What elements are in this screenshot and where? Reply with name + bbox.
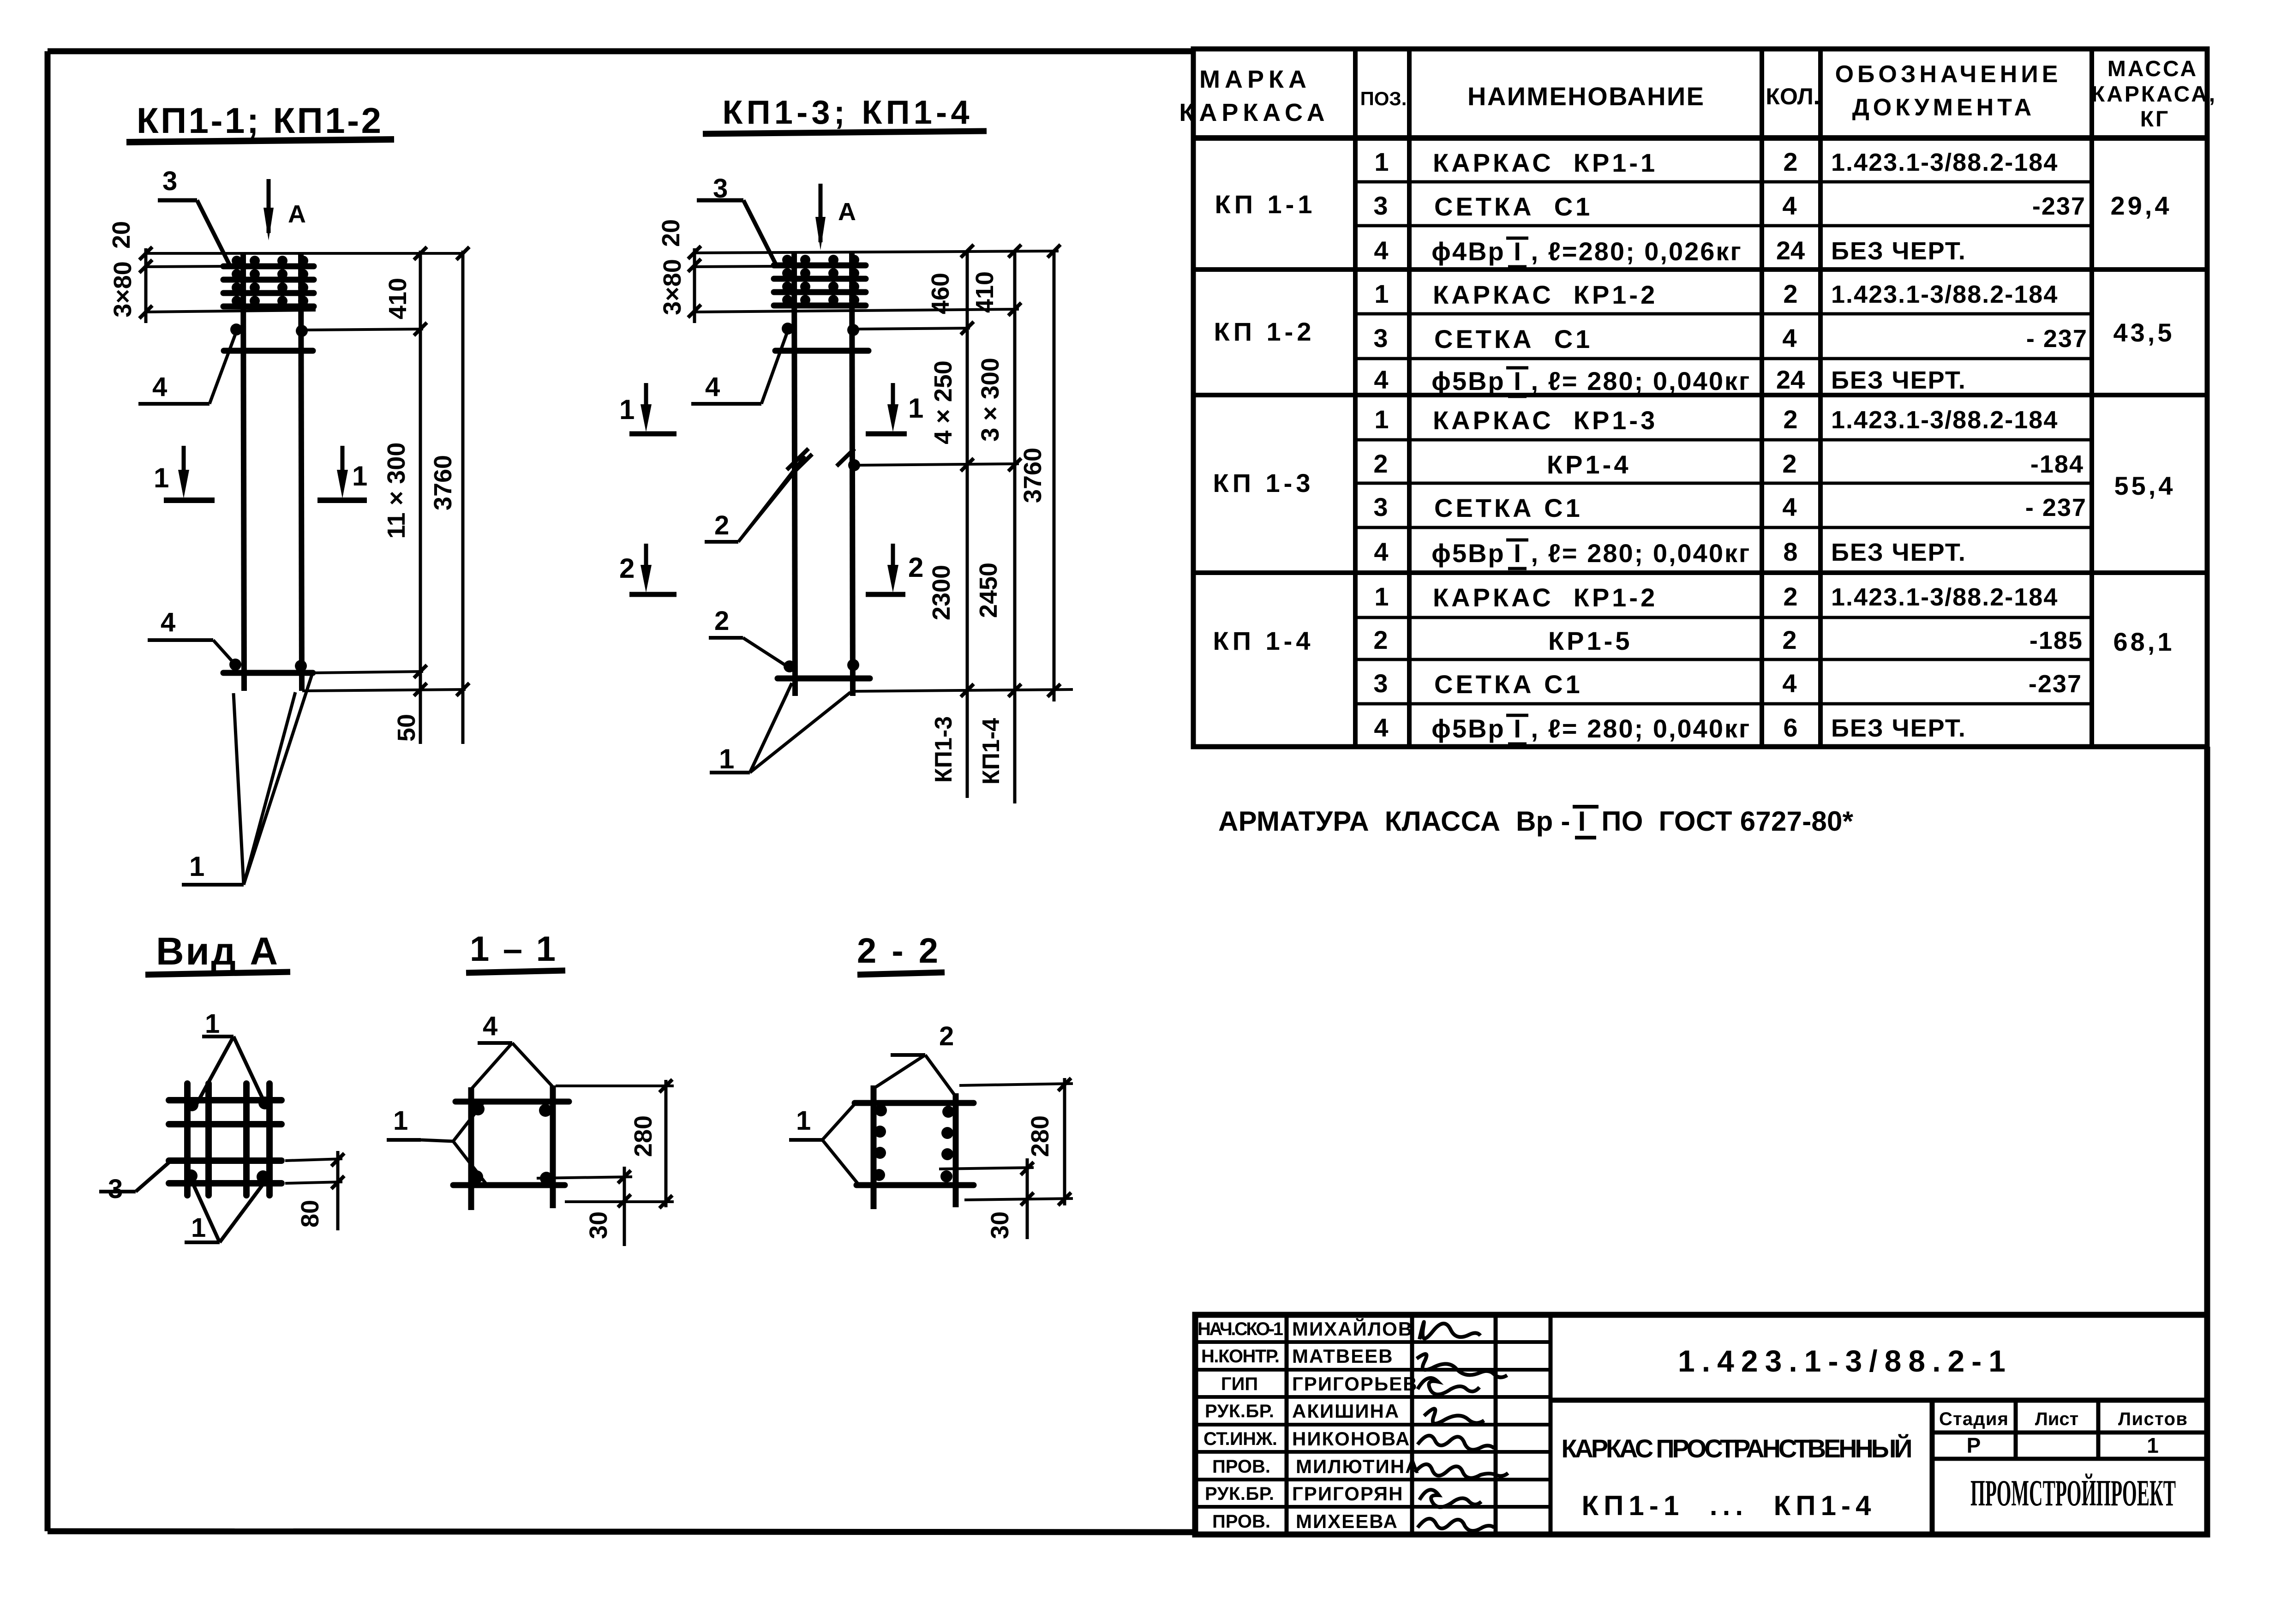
signature squiggle row3	[1418, 1378, 1479, 1395]
stadia list listov dividers	[1932, 1400, 2207, 1459]
section marker 2 right d2	[866, 544, 923, 594]
signature squiggle row2	[1417, 1354, 1507, 1378]
spec table document designation texts	[1831, 149, 2088, 742]
svg-text:КП1-3: КП1-3	[930, 716, 957, 783]
svg-text:2: 2	[619, 553, 635, 584]
svg-text:МАТВЕЕВ: МАТВЕЕВ	[1292, 1345, 1394, 1367]
ticks on 3x80 dim d2	[688, 246, 701, 318]
svg-text:3760: 3760	[429, 455, 457, 510]
extension line from dot to dim 410	[307, 329, 423, 330]
svg-text:КАРКАСА,: КАРКАСА,	[2091, 82, 2217, 107]
signature squiggle row6	[1415, 1464, 1508, 1478]
dim 30 section1	[537, 1167, 632, 1246]
section marker 1 right	[317, 446, 367, 500]
svg-text:3×80: 3×80	[109, 261, 137, 318]
svg-text:460: 460	[927, 273, 954, 314]
svg-text:КАРКАС ПРОСТРАНСТВЕННЫЙ: КАРКАС ПРОСТРАНСТВЕННЫЙ	[1562, 1434, 1915, 1463]
section marker 1 left	[154, 446, 215, 500]
title underline	[703, 131, 987, 134]
svg-text:- 237: - 237	[2025, 494, 2087, 521]
signature squiggle row1	[1419, 1322, 1480, 1340]
signature squiggle row5	[1418, 1436, 1494, 1450]
spec table name column texts	[1433, 148, 1658, 699]
svg-text:КАРКАС КР1-3: КАРКАС КР1-3	[1433, 406, 1658, 435]
splice dot right bar d2	[848, 459, 860, 471]
section2 left stirrup leg	[871, 1085, 877, 1209]
svg-text:1: 1	[154, 462, 169, 493]
spec table mass values	[2111, 191, 2176, 656]
svg-text:2: 2	[1783, 405, 1797, 434]
svg-text:4: 4	[1782, 669, 1796, 698]
svg-text:3: 3	[162, 166, 177, 196]
title block outer frame	[1195, 1315, 2207, 1534]
svg-text:ГРИГОРЯН: ГРИГОРЯН	[1292, 1483, 1403, 1504]
svg-text:2: 2	[908, 552, 923, 583]
svg-text:1: 1	[1374, 582, 1389, 611]
mesh C1 bar row 4	[223, 296, 314, 306]
svg-text:4: 4	[1782, 324, 1796, 353]
svg-text:КП 1-3: КП 1-3	[1213, 468, 1314, 497]
mesh C1 bar row 1	[223, 256, 314, 266]
svg-text:КАРКАСА: КАРКАСА	[1179, 99, 1329, 126]
dim 30 section2	[939, 1158, 1034, 1239]
svg-text:МАССА: МАССА	[2107, 57, 2198, 81]
svg-text:1: 1	[796, 1106, 811, 1136]
svg-text:3: 3	[1373, 191, 1388, 220]
svg-text:11 × 300: 11 × 300	[383, 443, 410, 539]
right longitudinal bar d2	[852, 252, 853, 696]
svg-text:СТ.ИНЖ.: СТ.ИНЖ.	[1203, 1429, 1277, 1449]
signature squiggle row8	[1418, 1519, 1494, 1531]
cage top line	[146, 252, 464, 255]
svg-text:РУК.БР.: РУК.БР.	[1205, 1484, 1274, 1504]
svg-text:6: 6	[1783, 713, 1797, 742]
leader 4 lower	[148, 607, 234, 663]
svg-text:1: 1	[1374, 405, 1389, 434]
svg-text:КР1-4: КР1-4	[1547, 450, 1631, 479]
svg-text:4: 4	[152, 372, 167, 402]
svg-text:3 × 300: 3 × 300	[976, 358, 1004, 442]
svg-text:2: 2	[1782, 449, 1796, 478]
dim column 3x80,20 line d2	[693, 248, 696, 323]
title block names	[1292, 1318, 1420, 1532]
spec table group boundary lines	[1193, 270, 2207, 573]
mesh C1 bar row 3 d2	[774, 282, 866, 292]
spec table header text МАССА КАРКАСА КГ	[2091, 57, 2217, 132]
svg-text:КГ: КГ	[2140, 107, 2170, 132]
svg-text:СЕТКА С1: СЕТКА С1	[1434, 493, 1583, 522]
leader 1 section1	[387, 1101, 486, 1184]
leader 4 section1	[472, 1011, 552, 1088]
svg-text:30: 30	[986, 1211, 1014, 1239]
svg-text:3: 3	[108, 1174, 123, 1204]
view arrow A	[263, 179, 306, 240]
svg-text:3: 3	[1373, 669, 1388, 698]
left longitudinal bar	[243, 253, 244, 691]
svg-text:2: 2	[1783, 279, 1797, 308]
svg-text:1.423.1-3/88.2-184: 1.423.1-3/88.2-184	[1831, 281, 2058, 308]
title block signature area verticals	[1287, 1315, 1551, 1534]
extension line bar-end to dim	[302, 689, 466, 691]
svg-text:ПРОМСТРОЙПРОЕКТ: ПРОМСТРОЙПРОЕКТ	[1970, 1473, 2176, 1514]
title underline	[126, 139, 394, 142]
svg-text:КП 1-4: КП 1-4	[1213, 626, 1314, 655]
extension line tie to dim	[314, 671, 423, 673]
svg-text:МАРКА: МАРКА	[1199, 66, 1311, 93]
svg-text:СЕТКА С1: СЕТКА С1	[1434, 670, 1583, 699]
svg-text:БЕЗ ЧЕРТ.: БЕЗ ЧЕРТ.	[1831, 237, 1966, 265]
grid vertical bar 1	[184, 1084, 191, 1195]
right longitudinal bar	[301, 253, 302, 691]
leader 2 section2	[875, 1021, 954, 1095]
leader 4 upper d2	[691, 331, 788, 404]
svg-text:4: 4	[161, 607, 175, 637]
svg-text:410: 410	[971, 271, 999, 313]
section2 top mesh bar	[855, 1100, 974, 1106]
section2 bottom mesh bar	[856, 1182, 974, 1188]
svg-text:2: 2	[1783, 147, 1797, 176]
svg-text:1.423.1-3/88.2-184: 1.423.1-3/88.2-184	[1831, 406, 2058, 434]
svg-text:20: 20	[657, 219, 685, 247]
svg-text:А: А	[838, 198, 856, 226]
svg-text:68,1: 68,1	[2113, 627, 2175, 656]
svg-text:ПРОВ.: ПРОВ.	[1212, 1456, 1270, 1477]
svg-text:Стадия: Стадия	[1939, 1409, 2008, 1429]
overbar/underbar marks for Vr-I in rebar rows	[1506, 238, 1528, 744]
svg-text:ϕ4Вр I , ℓ=280; 0,026кг: ϕ4Вр I , ℓ=280; 0,026кг	[1431, 237, 1742, 266]
svg-text:КАРКАС КР1-1: КАРКАС КР1-1	[1433, 148, 1658, 177]
ticks on 410 dim line	[414, 247, 427, 696]
grid horizontal bar 2	[169, 1121, 281, 1127]
pos4 rod dots lower	[229, 659, 241, 671]
ticks dim 3760 d2	[1048, 245, 1060, 697]
svg-text:1: 1	[719, 743, 734, 774]
svg-text:ДОКУМЕНТА: ДОКУМЕНТА	[1852, 94, 2035, 121]
spec table header bottom line	[1193, 135, 2207, 141]
svg-text:280: 280	[629, 1115, 657, 1157]
extension line from dot to dim 460 d2	[858, 328, 970, 329]
svg-text:24: 24	[1776, 365, 1805, 394]
svg-text:4: 4	[1374, 537, 1388, 566]
spec table column lines	[1355, 49, 2092, 747]
svg-text:1: 1	[908, 393, 923, 424]
splice break mark left bar d2	[787, 449, 812, 475]
svg-text:МИЛЮТИНА: МИЛЮТИНА	[1296, 1456, 1420, 1477]
spec table rebar rows with phi	[1431, 237, 1751, 743]
svg-text:3760: 3760	[1019, 448, 1047, 503]
leader 2 lower d2	[709, 606, 787, 666]
cage top line d2	[694, 251, 1059, 253]
pos4 rod dots lower d2	[784, 660, 796, 672]
svg-text:ГИП: ГИП	[1221, 1374, 1258, 1394]
spec table outer frame	[1193, 49, 2207, 747]
svg-text:ϕ5Вр I , ℓ= 280; 0,040кг: ϕ5Вр I , ℓ= 280; 0,040кг	[1431, 539, 1751, 568]
svg-text:ГРИГОРЬЕВ: ГРИГОРЬЕВ	[1292, 1373, 1418, 1395]
svg-text:50: 50	[393, 714, 420, 742]
title underline 1-1	[466, 971, 565, 973]
grid vertical bar 4	[266, 1084, 273, 1195]
svg-text:24: 24	[1776, 236, 1805, 265]
leader 1 top viewA	[196, 1009, 262, 1106]
section1 bottom mesh bar	[453, 1182, 565, 1188]
dim line 3760 d2	[1053, 251, 1056, 701]
svg-text:30: 30	[585, 1211, 612, 1239]
section1 right stirrup leg	[550, 1085, 556, 1208]
leader 1 bottom	[182, 675, 312, 885]
svg-text:Лист: Лист	[2035, 1409, 2079, 1429]
svg-text:ПРОВ.: ПРОВ.	[1212, 1511, 1270, 1532]
svg-text:КР1-5: КР1-5	[1548, 626, 1632, 655]
ticks dim 460 line	[961, 245, 974, 697]
title block doc number cell bottom line	[1551, 1398, 2207, 1403]
svg-text:2 - 2: 2 - 2	[857, 931, 945, 971]
section2 right rod dots	[942, 1106, 954, 1118]
mesh row1 extension line d2	[694, 266, 776, 267]
mesh C1 bar row 3	[223, 282, 314, 293]
spec table header text МАРКА КАРКАСА	[1179, 66, 1329, 126]
spec table col1 mark labels	[1213, 190, 1316, 655]
svg-text:3×80: 3×80	[659, 259, 686, 315]
svg-text:КП1-1; КП1-2: КП1-1; КП1-2	[137, 100, 386, 141]
svg-text:ϕ5Вр I , ℓ= 280; 0,040кг: ϕ5Вр I , ℓ= 280; 0,040кг	[1431, 366, 1751, 396]
svg-text:БЕЗ ЧЕРТ.: БЕЗ ЧЕРТ.	[1831, 366, 1966, 394]
svg-text:1: 1	[1374, 279, 1389, 308]
svg-text:БЕЗ ЧЕРТ.: БЕЗ ЧЕРТ.	[1831, 714, 1966, 742]
svg-text:КП1-4: КП1-4	[978, 718, 1005, 785]
svg-text:А: А	[288, 200, 306, 228]
signature squiggle row4	[1424, 1408, 1484, 1423]
svg-text:Вид А: Вид А	[156, 929, 285, 973]
svg-text:МИХЕЕВА: МИХЕЕВА	[1296, 1510, 1398, 1532]
svg-text:КП1-1 ... КП1-4: КП1-1 ... КП1-4	[1582, 1490, 1875, 1521]
svg-text:2: 2	[939, 1021, 954, 1051]
leader 3 viewA	[99, 1159, 173, 1204]
svg-text:АКИШИНА: АКИШИНА	[1292, 1400, 1400, 1422]
section1 left stirrup leg	[468, 1087, 474, 1210]
svg-text:8: 8	[1783, 537, 1797, 566]
svg-text:НАИМЕНОВАНИЕ: НАИМЕНОВАНИЕ	[1467, 82, 1707, 111]
dim line 460/4x250/2300 d2	[966, 251, 969, 798]
spec table kol numbers	[1776, 147, 1805, 742]
svg-text:-185: -185	[2030, 627, 2083, 654]
svg-text:3: 3	[1373, 324, 1388, 353]
grid corner dots	[186, 1098, 198, 1111]
lower transverse tie	[223, 670, 313, 676]
pos4 rod dots upper d2	[782, 323, 794, 335]
section marker 2 left d2	[619, 544, 677, 594]
leader 1 section2	[789, 1102, 858, 1184]
leader 1 bottom d2	[710, 683, 850, 774]
grid horizontal bar 3	[169, 1157, 281, 1164]
dim 80 viewA	[285, 1151, 344, 1230]
svg-text:2: 2	[714, 606, 729, 636]
title block signature rows	[1195, 1342, 1551, 1507]
svg-text:20: 20	[108, 221, 135, 249]
spec table poz numbers	[1373, 147, 1389, 742]
splice level extension line d2	[859, 464, 1019, 465]
dim line 410/3x300/2450 d2	[1013, 251, 1017, 803]
svg-text:КП 1-2: КП 1-2	[1214, 317, 1315, 346]
svg-text:2: 2	[1373, 449, 1388, 478]
ticks dim 410 line d2	[1008, 245, 1021, 697]
title block role labels	[1197, 1319, 1283, 1532]
svg-text:-184: -184	[2030, 450, 2084, 478]
dim line 3760	[461, 251, 465, 744]
leader 2 mid d2	[705, 456, 805, 542]
svg-text:1 – 1: 1 – 1	[470, 929, 562, 969]
section2 left rod dots	[875, 1104, 887, 1116]
svg-text:29,4: 29,4	[2111, 191, 2172, 220]
mesh bottom extension line d2 to dim 410	[694, 309, 1019, 312]
svg-text:НАЧ.СКО-1: НАЧ.СКО-1	[1197, 1319, 1283, 1339]
stadia header labels	[1939, 1409, 2187, 1429]
svg-text:РУК.БР.: РУК.БР.	[1205, 1401, 1274, 1421]
svg-text:МИХАЙЛОВ: МИХАЙЛОВ	[1292, 1318, 1413, 1340]
svg-text:- 237: - 237	[2026, 325, 2088, 353]
section1 corner bar dots	[472, 1103, 485, 1115]
svg-text:2300: 2300	[928, 565, 955, 620]
svg-text:НИКОНОВА: НИКОНОВА	[1292, 1428, 1410, 1450]
dim column 3x80,20 line	[144, 248, 148, 323]
svg-text:280: 280	[1026, 1115, 1054, 1157]
svg-text:1: 1	[191, 1213, 206, 1243]
svg-text:2450: 2450	[975, 563, 1002, 618]
upper transverse tie d2	[775, 348, 868, 354]
svg-text:1: 1	[205, 1009, 220, 1039]
splice break mark right bar d2	[837, 449, 855, 466]
svg-text:4: 4	[1374, 365, 1388, 394]
section marker 1 left d2	[619, 383, 677, 434]
svg-text:4: 4	[705, 372, 720, 402]
ticks on 3760 dim line	[456, 247, 469, 696]
svg-text:4: 4	[1374, 236, 1388, 265]
svg-text:1.423.1-3/88.2-184: 1.423.1-3/88.2-184	[1831, 149, 2058, 176]
grid vertical bar 3	[243, 1084, 250, 1195]
signature squiggle row7	[1419, 1490, 1481, 1507]
svg-text:ПОЗ.: ПОЗ.	[1360, 88, 1407, 109]
extension line bar ends to dims d2	[850, 689, 1073, 691]
leader 1 bottom viewA	[185, 1181, 264, 1243]
svg-text:1: 1	[189, 851, 204, 882]
leader 3 drawing2	[697, 174, 777, 267]
svg-text:КП1-3; КП1-4: КП1-3; КП1-4	[723, 94, 974, 131]
svg-text:80: 80	[296, 1200, 324, 1228]
title block stadia column divider	[1930, 1400, 1935, 1534]
mesh C1 bar row 4 d2	[774, 295, 866, 306]
svg-text:55,4: 55,4	[2114, 471, 2176, 500]
mesh group bottom extension line	[146, 310, 316, 312]
section1 top mesh bar	[455, 1099, 569, 1105]
mesh row1 extension line	[146, 266, 226, 267]
svg-text:КП 1-1: КП 1-1	[1215, 190, 1316, 219]
svg-text:БЕЗ ЧЕРТ.: БЕЗ ЧЕРТ.	[1831, 539, 1966, 566]
svg-text:СЕТКА С1: СЕТКА С1	[1434, 192, 1593, 221]
mesh C1 bar row 2 d2	[774, 268, 866, 279]
svg-text:3: 3	[1373, 492, 1388, 521]
ticks on 3x80 dim	[139, 247, 152, 318]
svg-text:Листов: Листов	[2118, 1409, 2187, 1429]
dim 280 section1	[556, 1079, 674, 1208]
grid horizontal bar 1	[169, 1097, 281, 1103]
svg-text:КАРКАС КР1-2: КАРКАС КР1-2	[1433, 583, 1658, 612]
leader 4 upper	[138, 332, 236, 404]
svg-text:КАРКАС КР1-2: КАРКАС КР1-2	[1433, 280, 1658, 309]
mesh C1 bar row 1 d2	[774, 255, 866, 265]
svg-text:4: 4	[483, 1011, 497, 1041]
left longitudinal bar d2	[794, 252, 795, 696]
section2 right stirrup leg	[953, 1093, 959, 1207]
svg-text:4: 4	[1374, 713, 1388, 742]
svg-text:Р: Р	[1967, 1433, 1981, 1457]
svg-text:АРМАТУРА КЛАССА Вр - I ПО: АРМАТУРА КЛАССА Вр - I ПО ГОСТ 6727-80*	[1218, 806, 1860, 837]
svg-text:2: 2	[1373, 625, 1388, 654]
upper transverse tie	[224, 348, 313, 354]
svg-text:2: 2	[1783, 582, 1797, 611]
svg-text:ϕ5Вр I , ℓ= 280; 0,040кг: ϕ5Вр I , ℓ= 280; 0,040кг	[1431, 714, 1751, 743]
svg-text:2: 2	[1782, 625, 1796, 654]
grid vertical bar 2	[205, 1084, 212, 1195]
svg-text:410: 410	[384, 278, 412, 319]
svg-text:1: 1	[1374, 147, 1389, 176]
note overbar and underbar on I	[1573, 805, 1599, 809]
title underline Vid A	[145, 972, 290, 975]
svg-text:-237: -237	[2029, 670, 2082, 698]
section marker 1 right d2	[866, 383, 923, 434]
svg-text:КОЛ.: КОЛ.	[1766, 84, 1820, 109]
grid horizontal bar 4	[169, 1180, 281, 1187]
mesh C1 bar row 2	[223, 269, 314, 280]
leader 3 drawing1	[158, 166, 229, 264]
svg-text:1: 1	[2147, 1433, 2159, 1457]
svg-text:ОБОЗНАЧЕНИЕ: ОБОЗНАЧЕНИЕ	[1835, 61, 2062, 88]
dim line 410 / 11x300 / 50	[419, 251, 422, 744]
spec table sub-row lines	[1355, 182, 2092, 704]
svg-text:-237: -237	[2032, 192, 2086, 220]
svg-text:2: 2	[714, 510, 729, 540]
svg-text:1: 1	[393, 1106, 408, 1136]
pos4 rod dots upper	[230, 324, 242, 336]
svg-text:1.423.1-3/88.2-184: 1.423.1-3/88.2-184	[1831, 583, 2058, 611]
svg-text:4 × 250: 4 × 250	[929, 360, 957, 444]
svg-text:43,5: 43,5	[2113, 318, 2175, 347]
svg-text:Н.КОНТР.: Н.КОНТР.	[1201, 1346, 1280, 1366]
svg-text:1: 1	[352, 461, 367, 491]
title underline 2-2	[857, 972, 945, 975]
svg-text:1: 1	[619, 394, 635, 425]
view arrow A drawing 2	[815, 184, 856, 250]
spec table header text ОБОЗНАЧЕНИЕ ДОКУМЕНТА	[1835, 61, 2062, 121]
dim 280 section2	[959, 1078, 1073, 1205]
lower transverse tie d2	[778, 676, 870, 682]
svg-text:СЕТКА С1: СЕТКА С1	[1434, 324, 1593, 354]
svg-text:4: 4	[1782, 191, 1796, 220]
svg-text:4: 4	[1782, 492, 1796, 521]
